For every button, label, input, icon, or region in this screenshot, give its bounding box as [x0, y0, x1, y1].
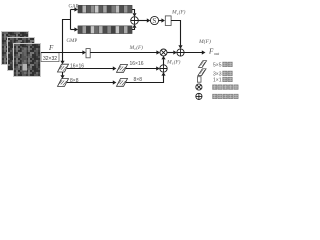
svg-text:32×32: 32×32	[43, 56, 57, 62]
32x32 size box	[41, 53, 59, 63]
svg-text:(F): (F)	[179, 9, 186, 16]
wire + arrow into GAP vector	[71, 9, 75, 11]
svg-text:M(F): M(F)	[198, 38, 211, 45]
wire: GMP vector to channel add	[132, 28, 135, 30]
sigmoid node S	[150, 16, 158, 25]
arrowhead into multiply	[156, 50, 160, 54]
legend multiply text (Chinese)	[213, 85, 239, 90]
legend add icon	[196, 93, 202, 99]
label Ms(F)	[166, 58, 181, 65]
5x5 conv parallelogram left row1	[58, 64, 69, 72]
svg-text:out: out	[214, 51, 220, 56]
multiply node (main line)	[160, 49, 167, 56]
wire row1 to spatial add	[126, 68, 157, 70]
label Fout	[208, 48, 220, 57]
svg-text:(F): (F)	[136, 44, 143, 51]
3x3 conv parallelogram right row1	[117, 65, 128, 73]
legend multiply icon	[196, 84, 202, 90]
legend 5x5 conv icon	[198, 61, 206, 68]
arrowhead into conv	[82, 50, 86, 54]
legend 1x1 conv icon	[197, 77, 201, 83]
add node (main line)	[177, 49, 184, 56]
legend add text (Chinese)	[213, 94, 239, 99]
image 2 (middle)	[8, 38, 35, 71]
spatial add node	[160, 65, 167, 72]
1x1 conv (channel branch)	[165, 16, 171, 26]
5x5 conv parallelogram left row2	[58, 79, 69, 87]
wire add to sigmoid	[138, 20, 147, 22]
svg-text:F: F	[48, 44, 54, 52]
channel add node	[131, 17, 139, 25]
label Mc(F) top	[171, 9, 186, 16]
input feature map stack (3 images)	[2, 32, 41, 77]
arrowhead into add	[173, 50, 177, 54]
wire row2 up into spatial add	[126, 75, 164, 82]
GAP pooled vector	[78, 5, 132, 13]
output arrow	[184, 52, 202, 54]
svg-text:5×5: 5×5	[213, 62, 222, 68]
wire + arrow into GMP vector	[71, 29, 75, 31]
svg-text:GMP: GMP	[67, 39, 78, 44]
wire row1	[67, 68, 113, 70]
wire spatial add up to multiply	[163, 59, 165, 64]
wire conv down to main add	[171, 21, 180, 46]
wire: branch down to spatial attention	[62, 53, 64, 62]
wire: main line from stack to 1x1 conv	[41, 52, 83, 54]
legend 3x3 conv icon	[198, 69, 206, 76]
svg-text:GAP: GAP	[69, 4, 79, 9]
wire between parallelograms	[62, 72, 64, 75]
svg-text:16×16: 16×16	[130, 61, 144, 67]
wire: GAP vector to channel add	[132, 10, 135, 14]
GMP pooled vector	[78, 26, 132, 34]
legend 5x5 text	[213, 62, 232, 68]
wire row2	[67, 82, 113, 84]
wire: branch up to channel attention	[63, 10, 71, 53]
wire sigmoid to 1x1 conv	[159, 20, 162, 22]
svg-text:S: S	[152, 17, 156, 25]
svg-text:1×1: 1×1	[213, 78, 222, 84]
legend 1x1 text	[213, 77, 232, 83]
wire: main line conv to multiply	[90, 52, 156, 54]
image 3 (front)	[14, 44, 41, 77]
image 1 (back)	[2, 32, 29, 65]
label Mc(F) on main line	[129, 44, 144, 51]
svg-text:(F): (F)	[174, 58, 181, 65]
1x1 conv on main line	[86, 49, 90, 58]
legend 3x3 text	[213, 71, 232, 77]
3x3 conv parallelogram right row2	[117, 79, 128, 87]
svg-text:3×3: 3×3	[213, 71, 222, 77]
wire multiply to add	[167, 52, 173, 54]
